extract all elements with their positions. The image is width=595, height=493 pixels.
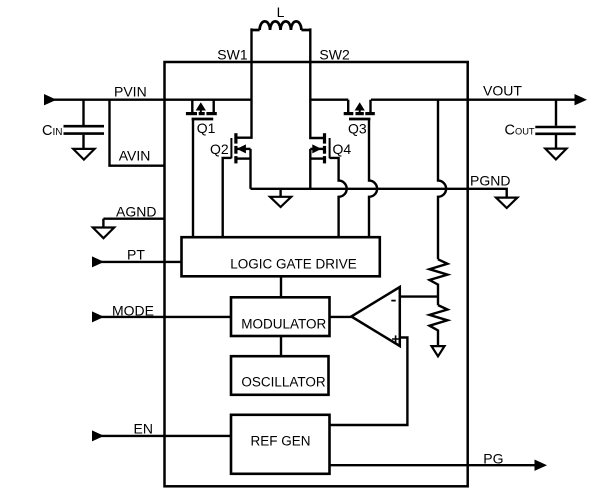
svg-text:SW1: SW1 <box>217 47 248 63</box>
svg-text:Q4: Q4 <box>333 141 352 157</box>
svg-text:VOUT: VOUT <box>483 83 522 99</box>
svg-text:Q3: Q3 <box>348 121 367 137</box>
svg-text:PT: PT <box>127 247 145 263</box>
svg-text:MODULATOR: MODULATOR <box>241 317 326 332</box>
svg-text:PVIN: PVIN <box>114 84 147 100</box>
svg-text:CIN: CIN <box>42 123 62 139</box>
svg-text:PG: PG <box>483 451 503 467</box>
svg-text:MODE: MODE <box>112 303 154 319</box>
svg-text:COUT: COUT <box>505 123 535 139</box>
svg-text:Q1: Q1 <box>197 120 216 136</box>
svg-text:REF GEN: REF GEN <box>250 434 310 449</box>
svg-text:EN: EN <box>134 421 153 437</box>
svg-text:OSCILLATOR: OSCILLATOR <box>241 375 326 390</box>
svg-text:LOGIC GATE DRIVE: LOGIC GATE DRIVE <box>230 256 357 271</box>
svg-text:Q2: Q2 <box>210 141 229 157</box>
svg-text:SW2: SW2 <box>319 47 350 63</box>
svg-text:AGND: AGND <box>116 204 156 220</box>
svg-text:L: L <box>277 4 285 20</box>
svg-text:AVIN: AVIN <box>119 147 151 163</box>
svg-text:PGND: PGND <box>470 173 510 189</box>
